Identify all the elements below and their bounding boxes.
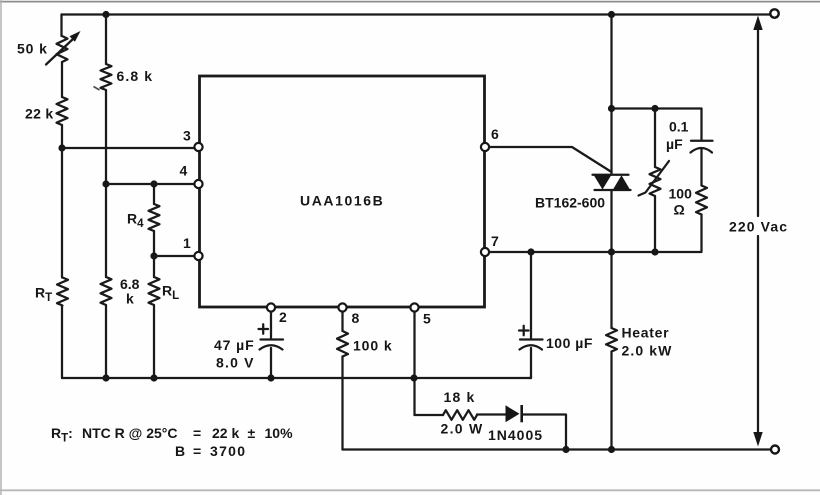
svg-text:RT: RT xyxy=(35,285,52,305)
pin 7 circle xyxy=(481,248,489,256)
pin 2 circle xyxy=(267,303,275,311)
wire pin8 to R 100k xyxy=(341,312,343,332)
wire pin 4 xyxy=(106,183,195,185)
svg-text:18 k: 18 k xyxy=(444,389,476,405)
pin 5 circle xyxy=(410,303,418,311)
svg-text:5: 5 xyxy=(423,311,431,327)
resistor 22 k xyxy=(57,97,68,125)
node junction bus / 6.8k branch xyxy=(102,374,109,381)
wire 6.8k lower to bus xyxy=(105,305,107,378)
svg-text:±: ± xyxy=(248,425,256,441)
wire top supply rail xyxy=(62,13,770,15)
svg-text:=: = xyxy=(193,443,201,459)
svg-text:2: 2 xyxy=(279,309,287,325)
svg-text:7: 7 xyxy=(491,233,499,249)
svg-text:µF: µF xyxy=(666,136,683,152)
node junction pin7 wire / triac branch xyxy=(608,248,615,255)
wire 100uF to bus end xyxy=(529,348,531,378)
node junction bus / 47uF xyxy=(267,374,274,381)
svg-text:=: = xyxy=(193,425,201,441)
wire R4 lower lead xyxy=(153,231,155,256)
wire snubber top rail xyxy=(612,107,702,109)
border frame top xyxy=(0,1,820,3)
wire 220Vac arrow line upper xyxy=(757,28,759,216)
diode D1 1N4005 xyxy=(506,405,520,422)
svg-text:R4: R4 xyxy=(127,211,144,231)
wire triac branch upper xyxy=(610,15,612,175)
wire RL upper lead xyxy=(153,256,155,277)
wire diode to corner xyxy=(522,415,566,450)
resistor 100 ohm xyxy=(696,186,707,215)
wire pot branch upper lead xyxy=(60,15,62,37)
node junction pin3 wire / left branch xyxy=(58,144,65,151)
capacitor 47 uF plates xyxy=(261,338,284,340)
scan speckle xyxy=(94,87,100,91)
thermistor diagonal stroke xyxy=(639,161,670,196)
svg-text:NTC R @ 25°C: NTC R @ 25°C xyxy=(82,425,177,441)
wire triac to heater xyxy=(610,190,612,328)
node junction snubber top rail / triac branch xyxy=(608,105,615,112)
svg-text:0.1: 0.1 xyxy=(669,119,689,135)
capacitor 100 uF plus sign xyxy=(519,326,529,335)
node junction bus / pin5 xyxy=(410,374,417,381)
wire junction down to RT xyxy=(61,148,63,278)
potentiometer 50 k zigzag xyxy=(57,36,68,62)
svg-text:4: 4 xyxy=(180,163,188,179)
wire 0.1uF upper lead xyxy=(700,109,702,141)
wire 18k to diode xyxy=(477,413,506,415)
resistor RL xyxy=(149,277,160,305)
svg-text:Heater: Heater xyxy=(622,325,670,341)
wire pin5 to 18k xyxy=(415,414,444,416)
wire 6.8k branch upper lead xyxy=(105,15,107,65)
wire ground bus xyxy=(62,377,531,379)
svg-text:B: B xyxy=(175,443,185,459)
svg-text:100 µF: 100 µF xyxy=(546,335,593,351)
resistor R4 xyxy=(149,204,160,231)
wire pin 6 gate xyxy=(489,147,612,172)
wire C 47uF to bus xyxy=(270,348,272,378)
wire pin 1 xyxy=(154,255,195,257)
resistor 6.8 k lower xyxy=(101,277,112,305)
capacitor 47 uF plus sign xyxy=(259,324,269,333)
node junction top rail / 6.8k branch xyxy=(102,11,109,18)
wire RL to bus xyxy=(153,305,155,378)
triac Q1 BT162-600 xyxy=(593,174,629,176)
thermistor zigzag xyxy=(650,167,661,196)
wire pin5 vertical xyxy=(413,312,415,416)
svg-text:1: 1 xyxy=(183,235,191,251)
svg-text:3700: 3700 xyxy=(210,443,246,459)
op-amp U1 UAA1016B box xyxy=(200,76,485,307)
node junction pin1 wire / R4 RL xyxy=(150,252,157,259)
node junction pin7 wire / thermistor xyxy=(651,248,658,255)
pin 3 circle xyxy=(194,143,202,151)
wire 220Vac arrow line lower xyxy=(757,236,759,433)
wire pin 7 rail xyxy=(489,251,702,253)
node junction pin7 wire / 100uF xyxy=(527,248,534,255)
svg-text:47 µF: 47 µF xyxy=(214,337,255,353)
svg-text:22 k: 22 k xyxy=(212,425,239,441)
wire RT to bottom bus xyxy=(61,306,63,379)
svg-text:3: 3 xyxy=(183,128,191,144)
arrowhead up 220Vac xyxy=(753,16,762,31)
node junction bottom rail / diode branch xyxy=(562,446,569,453)
wire pin2 to C 47uF xyxy=(270,312,272,340)
wire pin 3 xyxy=(62,147,195,149)
node junction bus / RL branch xyxy=(150,374,157,381)
svg-text:2.0 W: 2.0 W xyxy=(441,421,484,437)
svg-text:UAA1016B: UAA1016B xyxy=(300,193,384,209)
svg-text:100: 100 xyxy=(669,186,693,202)
svg-text:50 k: 50 k xyxy=(17,41,48,57)
capacitor 100 uF plates xyxy=(520,338,543,340)
pin 8 circle xyxy=(338,303,346,311)
wire pot to 22k xyxy=(61,62,63,97)
wire 100k down to bottom rail xyxy=(341,357,343,450)
arrowhead down 220Vac xyxy=(753,432,762,447)
border frame left xyxy=(0,0,2,495)
svg-text:6: 6 xyxy=(491,126,499,142)
resistor RT thermistor xyxy=(57,278,68,306)
potentiometer 50 k arrow xyxy=(46,39,74,65)
thermistor vertical leads xyxy=(654,109,656,252)
pin 1 circle xyxy=(194,252,202,260)
resistor 100 k xyxy=(337,331,348,357)
wire 0.1uF to 100ohm xyxy=(700,149,702,186)
wire 22k to junction xyxy=(61,125,63,148)
wire 6.8k branch middle xyxy=(105,90,107,277)
svg-text:8.0 V: 8.0 V xyxy=(216,355,255,371)
node junction bottom rail / heater xyxy=(608,446,615,453)
node junction pin4 wire / 6.8k branch xyxy=(102,180,109,187)
wire heater to bottom rail xyxy=(610,352,612,450)
svg-text:220 Vac: 220 Vac xyxy=(729,219,788,235)
wire 100ohm to pin7 rail xyxy=(700,215,702,252)
svg-text:6.8 k: 6.8 k xyxy=(117,68,154,84)
svg-text:k: k xyxy=(126,291,134,307)
svg-text:RT:: RT: xyxy=(51,425,73,445)
capacitor 0.1 uF plates xyxy=(691,140,713,142)
terminal top right xyxy=(770,9,778,17)
svg-text:10%: 10% xyxy=(265,425,294,441)
svg-text:1N4005: 1N4005 xyxy=(488,427,543,443)
svg-text:Ω: Ω xyxy=(674,202,685,218)
wire R4 upper lead xyxy=(153,184,155,204)
resistor 6.8 k upper xyxy=(101,64,112,90)
border frame bottom xyxy=(0,489,820,491)
pin 6 circle xyxy=(481,143,489,151)
svg-text:2.0 kW: 2.0 kW xyxy=(622,343,673,359)
wire 100uF upper lead xyxy=(530,252,532,339)
svg-text:8: 8 xyxy=(352,310,360,326)
pin 4 circle xyxy=(194,180,202,188)
heater resistor 2.0 kW xyxy=(606,328,617,352)
wire bottom rail xyxy=(343,448,771,450)
node junction pin4 wire / R4 xyxy=(150,180,157,187)
svg-text:22 k: 22 k xyxy=(25,106,53,122)
terminal bottom right xyxy=(771,446,779,454)
svg-text:100 k: 100 k xyxy=(353,338,393,354)
node junction top rail / triac branch xyxy=(608,11,615,18)
resistor 18 k 2.0 W xyxy=(443,410,477,420)
svg-text:BT162-600: BT162-600 xyxy=(535,195,605,211)
node junction snubber top rail / thermistor xyxy=(651,105,658,112)
svg-text:RL: RL xyxy=(162,283,179,303)
